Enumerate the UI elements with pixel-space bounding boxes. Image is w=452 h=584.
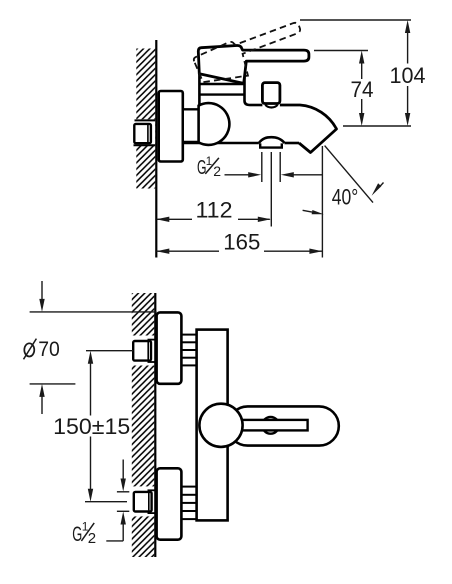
- svg-text:70: 70: [38, 337, 60, 361]
- svg-text:112: 112: [196, 197, 233, 222]
- svg-text:165: 165: [223, 229, 260, 254]
- svg-text:2: 2: [88, 530, 96, 547]
- svg-text:40°: 40°: [332, 185, 359, 210]
- svg-text:150±15: 150±15: [53, 414, 130, 439]
- svg-text:G: G: [72, 522, 82, 546]
- svg-text:2: 2: [213, 163, 221, 179]
- svg-text:74: 74: [351, 77, 374, 102]
- svg-text:104: 104: [390, 63, 426, 88]
